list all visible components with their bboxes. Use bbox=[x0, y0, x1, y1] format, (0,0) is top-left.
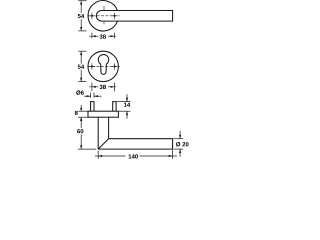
dimension 38 (top view) bbox=[89, 33, 116, 40]
side view: mitre joint bbox=[98, 139, 108, 149]
escutcheon: dashed centerline bbox=[88, 65, 120, 67]
dimension Ø6 leader bbox=[76, 90, 101, 97]
dimension 54 (escutcheon) bbox=[76, 51, 86, 81]
escutcheon: left hole cross bbox=[89, 63, 95, 70]
side view: neck bbox=[97, 117, 99, 149]
top view: right hole cross bbox=[111, 13, 117, 20]
dimension Ø20 bbox=[174, 131, 189, 157]
dimension 60 bbox=[76, 117, 96, 149]
top view: dashed centerline bbox=[88, 15, 120, 17]
side view: left pin bbox=[91, 102, 94, 112]
escutcheon: right hole cross bbox=[111, 63, 117, 70]
side view: right pin bbox=[113, 102, 116, 112]
top view: lever bar with U neck bbox=[96, 11, 172, 22]
side view: rose plate bbox=[88, 111, 118, 117]
escutcheon: rose circle bbox=[88, 51, 118, 81]
top view: rose circle bbox=[88, 1, 117, 31]
dimension 140 bbox=[95, 150, 177, 159]
side view: grip bar bbox=[98, 139, 172, 149]
escutcheon: euro profile keyhole bbox=[98, 55, 108, 75]
top view: left hole cross bbox=[89, 13, 95, 20]
dimension 54 (top view) bbox=[76, 1, 86, 31]
top view: vertical centerline ticks bbox=[103, 6, 105, 10]
dimension 14 bbox=[117, 94, 131, 118]
dimension 8 bbox=[75, 105, 88, 121]
dimension 38 (between views) bbox=[89, 83, 116, 92]
